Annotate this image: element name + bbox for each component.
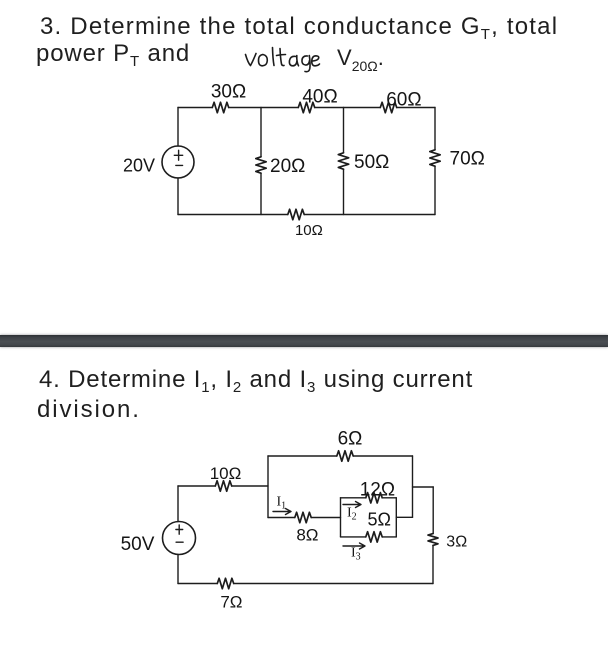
label 50V (121, 534, 155, 555)
wire top segment 2 (232, 485, 268, 487)
label 10ohm (210, 464, 242, 483)
inner box bottom edge left (341, 536, 366, 538)
wire left node vertical (267, 456, 269, 518)
resistor R 10ohm (215, 481, 231, 491)
wire left bottom (177, 555, 179, 584)
label 20ohm (270, 156, 305, 177)
inner box top edge left (341, 497, 366, 499)
svg-text:I1: I1 (277, 495, 287, 512)
wire bottom left segment (178, 583, 217, 585)
resistor R 50ohm (338, 153, 348, 169)
title question 4 line 2 (37, 398, 141, 422)
resistor R 5ohm (366, 532, 382, 542)
label 30ohm (211, 82, 246, 103)
wire top left segment (178, 485, 215, 487)
label 50ohm (354, 152, 389, 173)
wire right link (413, 486, 434, 488)
current I2 arrow (343, 502, 361, 508)
svg-text:20Ω: 20Ω (270, 156, 305, 177)
label V20ohm (337, 46, 384, 70)
current I3 arrow (343, 543, 365, 549)
wire far right bottom (432, 545, 434, 583)
wire upper branch right (353, 455, 412, 457)
svg-text:10Ω: 10Ω (210, 464, 242, 483)
inner box left edge (340, 498, 342, 537)
wire middle branch right (311, 517, 340, 519)
title question 3 line 2 (36, 42, 190, 66)
wire right node vertical (412, 456, 414, 517)
label 10ohm (295, 222, 323, 239)
svg-text:30Ω: 30Ω (211, 82, 246, 103)
resistor R 3ohm (428, 534, 438, 546)
resistor R 6ohm (337, 451, 353, 461)
wire node2 top (343, 108, 345, 153)
wire middle branch left (268, 517, 295, 519)
wire top segment 4 (397, 107, 435, 109)
label 70ohm (450, 149, 485, 170)
label 6ohm (338, 429, 363, 450)
label 7ohm (220, 593, 242, 612)
svg-text:7Ω: 7Ω (220, 593, 242, 612)
voltage source 50V (163, 522, 196, 555)
inner box bottom edge right (382, 536, 396, 538)
wire node1 top (260, 108, 262, 157)
inner box top edge right (382, 497, 396, 499)
current I1 label (277, 495, 287, 512)
wire bottom left segment (178, 214, 288, 216)
wire left top (177, 486, 179, 522)
handwritten word voltage (242, 42, 332, 76)
svg-text:5Ω: 5Ω (367, 510, 390, 530)
label 40ohm (302, 87, 337, 108)
label 5ohm (367, 510, 390, 530)
svg-text:40Ω: 40Ω (302, 87, 337, 108)
wire bottom right segment (234, 583, 433, 585)
wire right top (434, 108, 436, 150)
svg-text:I3: I3 (351, 546, 361, 563)
wire node2 bottom (343, 169, 345, 214)
resistor R 70ohm (430, 150, 440, 166)
slide divider bar (0, 335, 608, 347)
title question 3 line 1 (40, 15, 558, 39)
label 8ohm (296, 526, 318, 545)
wire top segment 2 (229, 107, 299, 109)
wire bottom right segment (304, 214, 435, 216)
voltage source 20V (162, 146, 194, 178)
resistor R 12ohm (366, 493, 382, 503)
wire right bottom (434, 166, 436, 214)
resistor R 30ohm (212, 102, 228, 112)
wire left bottom (177, 178, 179, 215)
circuit for question 4 (0, 420, 608, 665)
resistor R 7ohm (217, 578, 233, 588)
wire far right top (432, 487, 434, 534)
svg-text:8Ω: 8Ω (296, 526, 318, 545)
svg-text:70Ω: 70Ω (450, 149, 485, 170)
wire left top (177, 108, 179, 147)
label 60ohm (386, 90, 421, 111)
svg-text:3Ω: 3Ω (446, 534, 467, 551)
current I2 label (347, 506, 357, 523)
wire node1 bottom (260, 173, 262, 214)
resistor R 20ohm (256, 157, 266, 173)
svg-text:6Ω: 6Ω (338, 429, 363, 450)
resistor R 40ohm (298, 102, 314, 112)
svg-text:10Ω: 10Ω (295, 222, 323, 239)
resistor R 60ohm (380, 102, 396, 112)
circuit for question 3 (0, 0, 608, 340)
svg-text:20V: 20V (123, 156, 155, 176)
current I1 arrow (273, 509, 291, 515)
resistor R 8ohm (295, 512, 311, 522)
resistor R 10ohm (288, 209, 304, 219)
wire upper branch left (268, 455, 337, 457)
label 20V (123, 156, 155, 176)
label 3ohm (446, 534, 467, 551)
wire top left segment (178, 107, 212, 109)
svg-text:50V: 50V (121, 534, 155, 555)
svg-text:50Ω: 50Ω (354, 152, 389, 173)
inner box right edge (395, 498, 397, 537)
label 12ohm (360, 479, 395, 500)
wire top segment 3 (315, 107, 381, 109)
title question 4 line 1 (39, 368, 473, 392)
current I3 label (351, 546, 361, 563)
wire box to right node (396, 516, 412, 518)
